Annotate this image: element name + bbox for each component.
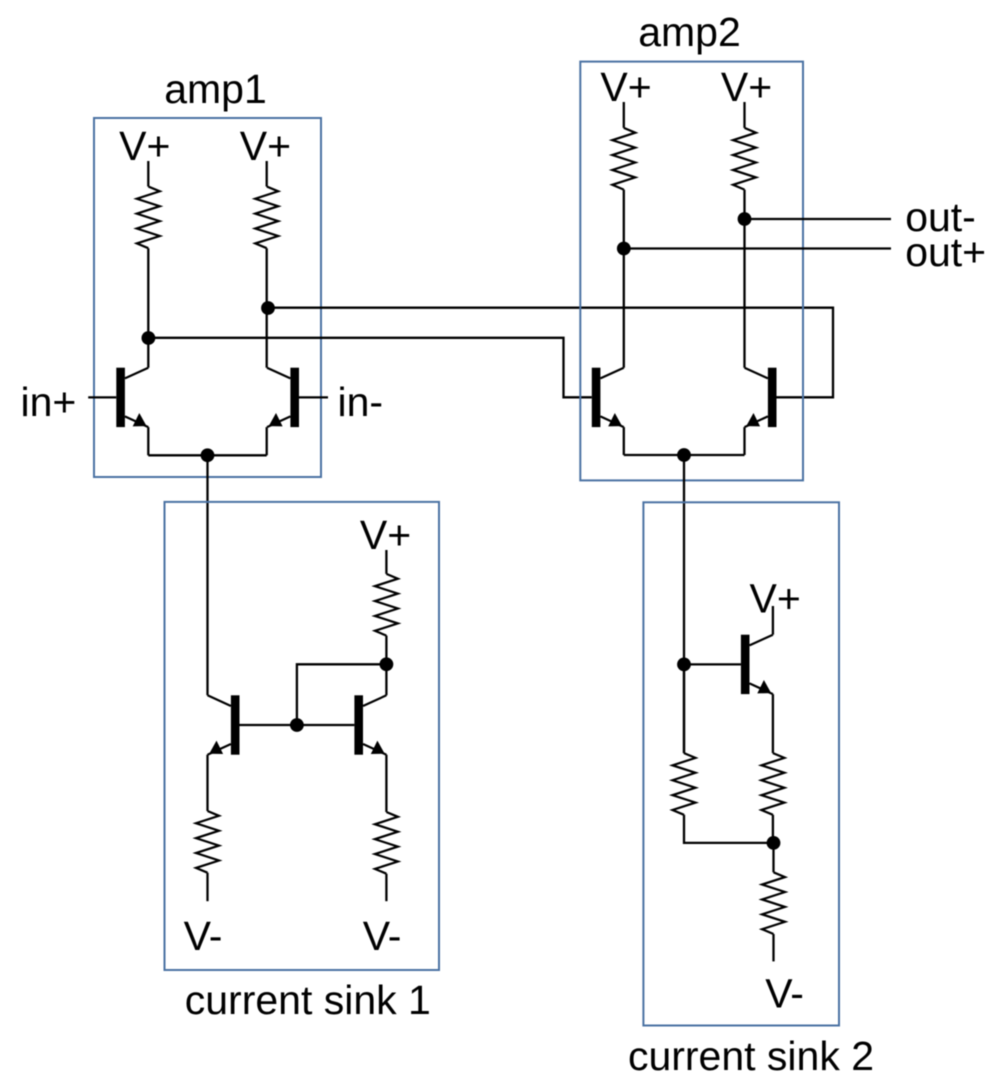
transistor Q7 (current sink 2) — [741, 635, 773, 694]
resistor R10 (current sink 2 tail) — [762, 872, 785, 934]
wire V+ to R5 — [385, 550, 387, 574]
node junction current sink 2 input — [677, 658, 691, 672]
node junction amp2 emitters — [677, 448, 691, 462]
wire Q2 emitter down — [266, 427, 268, 455]
transistor Q5 (current sink 1 left, mirrored) — [208, 695, 240, 754]
wire Q5 base to Q6 base — [240, 724, 355, 726]
wire R1 to Q1 collector — [147, 248, 149, 368]
svg-text:in+: in+ — [21, 379, 77, 425]
amp2 enclosure box — [580, 62, 803, 481]
wire Q3 emitter down — [623, 427, 625, 455]
resistor R6 (current sink 1 left emitter) — [196, 811, 219, 873]
svg-text:in-: in- — [338, 379, 384, 425]
transistor Q1 (amp1 left) — [116, 368, 148, 427]
node junction amp1 emitters — [201, 448, 215, 462]
wire Q4 emitter down — [743, 427, 745, 455]
transistor Q6 (current sink 1 right) — [354, 695, 386, 754]
wire amp2 emitter bus — [624, 454, 745, 456]
wire V+ to R3 — [623, 102, 625, 128]
wire Q6 emitter down — [385, 755, 387, 812]
wire amp1 emitter bus — [148, 454, 266, 456]
node junction amp1 left collector — [142, 331, 156, 345]
node junction amp2 left collector (out+) — [617, 242, 631, 256]
wire R3 to Q3 collector — [623, 190, 625, 368]
wire V+ to R4 — [743, 102, 745, 128]
wire R9 to bottom node — [772, 815, 774, 843]
resistor R2 (amp1 right load) — [255, 187, 278, 249]
wire node to Q7 base — [684, 663, 741, 665]
current sink 2 enclosure box — [643, 502, 839, 1025]
svg-text:amp1: amp1 — [164, 66, 267, 112]
svg-text:V-: V- — [363, 913, 402, 959]
wire V+ to R1 — [147, 161, 149, 187]
current sink 1 enclosure box — [165, 502, 440, 970]
svg-text:V+: V+ — [119, 123, 170, 169]
svg-text:V+: V+ — [721, 64, 772, 110]
wire amp2 tail to current sink 2 — [683, 455, 685, 753]
node junction amp1 right collector — [261, 301, 275, 315]
transistor Q4 (amp2 right, mirrored) — [745, 368, 777, 427]
wire Q7 emitter down — [772, 694, 774, 753]
transistor Q2 (amp1 right, mirrored) — [267, 368, 299, 427]
resistor R9 (current sink 2 emitter) — [761, 753, 784, 815]
wire out+ — [624, 247, 891, 249]
wire node down to R8 — [683, 664, 685, 753]
wire node to R10 — [772, 843, 774, 872]
svg-text:current sink 2: current sink 2 — [628, 1033, 874, 1079]
svg-text:V+: V+ — [600, 64, 651, 110]
resistor R5 (current sink 1 bias) — [375, 574, 398, 636]
transistor Q3 (amp2 left) — [592, 368, 624, 427]
wire Q5 emitter down — [206, 755, 208, 811]
wire base to collector (diode connection) — [297, 664, 387, 725]
wire R7 to V- — [385, 874, 387, 902]
svg-text:current sink 1: current sink 1 — [185, 977, 431, 1023]
wire Q1 emitter down — [147, 427, 149, 455]
svg-text:V-: V- — [184, 913, 223, 959]
resistor R7 (current sink 1 right emitter) — [375, 812, 398, 874]
wire out- — [745, 218, 892, 220]
node junction amp2 right collector (out-) — [738, 212, 752, 226]
wire V+ to Q7 collector — [772, 606, 774, 635]
wire amp1 right collector to Q4 base (net A) — [268, 308, 833, 398]
resistor R3 (amp2 left load) — [612, 128, 635, 190]
amp1 enclosure box — [94, 118, 321, 477]
svg-text:V+: V+ — [240, 123, 291, 169]
svg-text:V+: V+ — [750, 575, 801, 621]
svg-text:V-: V- — [765, 971, 804, 1017]
node junction Q6 collector — [380, 657, 394, 671]
wire R4 to Q4 collector — [743, 190, 745, 368]
wire in- to Q2 base — [299, 396, 328, 398]
wire R8 to bottom bus — [684, 815, 774, 843]
resistor R8 (current sink 2 left) — [673, 753, 696, 815]
wire R2 to Q2 collector — [266, 248, 268, 368]
wire R5 to Q6 collector — [385, 636, 387, 696]
node junction mirror bases — [290, 718, 304, 732]
resistor R4 (amp2 right load) — [733, 128, 756, 190]
node junction current sink 2 bottom — [767, 836, 781, 850]
svg-text:amp2: amp2 — [638, 9, 741, 55]
wire R10 to V- — [772, 934, 774, 961]
wire amp1 left collector to Q3 base (net B) — [148, 338, 591, 398]
wire R6 to V- — [206, 873, 208, 902]
resistor R1 (amp1 left load) — [137, 187, 160, 249]
wire in+ to Q1 base — [88, 396, 116, 398]
wire V+ to R2 — [266, 161, 268, 187]
svg-text:out+: out+ — [905, 229, 986, 275]
wire amp1 tail to current sink 1 — [206, 455, 208, 695]
